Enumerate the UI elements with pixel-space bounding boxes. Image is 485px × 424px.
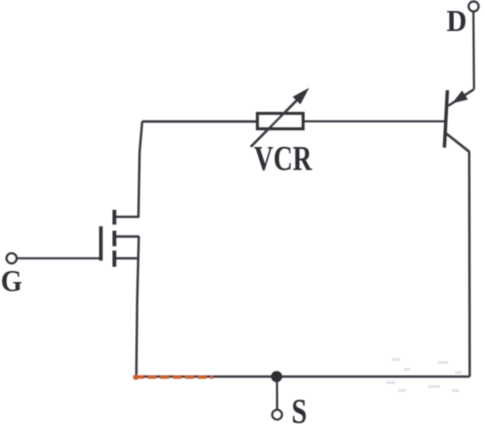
wire vertical to terminal D — [472, 12, 475, 89]
arrow line through resistor VCR — [251, 96, 302, 147]
noise speckles bottom right — [386, 358, 462, 392]
wire gate lead from terminal G to gate bar — [16, 257, 99, 259]
wire bottom rail — [136, 375, 469, 377]
arrowhead of VCR arrow — [293, 88, 310, 105]
wire MOSFET source horizontal — [113, 257, 139, 259]
wire left vertical: top corner down to MOSFET drain — [138, 122, 142, 218]
wire orange highlighted segment of bottom rail — [133, 374, 213, 380]
terminal G circle — [7, 253, 17, 263]
MOSFET channel segment body — [113, 231, 117, 247]
wire MOSFET body horizontal — [113, 235, 139, 237]
svg-text:VCR: VCR — [254, 140, 313, 178]
terminal D circle — [469, 2, 479, 12]
MOSFET channel segment drain — [113, 210, 117, 225]
MOSFET channel segment source — [113, 251, 117, 267]
svg-text:G: G — [1, 263, 23, 298]
wire stub from bottom rail junction to terminal S — [276, 379, 278, 410]
svg-text:D: D — [447, 3, 467, 38]
wire right vertical: bottom rail up to transistor emitter — [468, 152, 471, 377]
wire transistor upper diagonal lead — [448, 89, 474, 106]
wire MOSFET drain horizontal — [113, 216, 139, 218]
wire lower-left vertical: MOSFET source down to bottom rail — [136, 236, 139, 377]
MOSFET gate bar — [99, 226, 103, 260]
wire base: resistor right lead to transistor Q1 base bar — [304, 120, 445, 122]
arrow on transistor Q1 upper lead pointing to bar — [452, 91, 468, 104]
wire transistor lower diagonal lead — [446, 134, 469, 152]
wire top-left horizontal from corner to resistor R(VCR) left lead — [142, 120, 257, 122]
terminal S circle — [272, 410, 282, 420]
transistor Q1 bar — [444, 90, 447, 147]
junction dot on bottom rail node S — [271, 371, 282, 382]
resistor VCR body — [258, 114, 304, 129]
svg-text:S: S — [292, 393, 308, 424]
